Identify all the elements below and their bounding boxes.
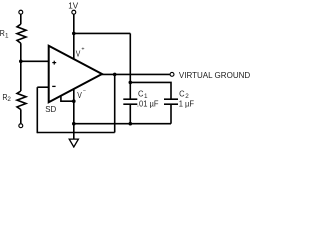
svg-text:V: V bbox=[77, 90, 82, 100]
op-amp minus input marking bbox=[52, 85, 55, 87]
wire R1 to R2 through node bbox=[20, 43, 22, 91]
wire 1V rail down right column bbox=[129, 33, 131, 98]
wire feedback bottom bbox=[37, 132, 114, 134]
svg-text:2: 2 bbox=[7, 96, 11, 103]
wire R1 terminal stem bbox=[20, 14, 22, 24]
svg-text:+: + bbox=[81, 46, 84, 52]
terminal R2 bottom bbox=[19, 124, 23, 128]
svg-text:−: − bbox=[83, 88, 86, 94]
node junction output feedback bbox=[113, 73, 117, 77]
node junction V- SD bbox=[72, 99, 76, 103]
capacitor C1 bbox=[123, 99, 137, 104]
wire V- to ground bbox=[73, 101, 75, 139]
svg-text:1V: 1V bbox=[68, 1, 78, 11]
capacitor C2 bbox=[164, 99, 178, 104]
wire inverting input bbox=[37, 86, 48, 88]
svg-text:1 µF: 1 µF bbox=[179, 98, 194, 108]
svg-text:SD: SD bbox=[45, 104, 56, 114]
wire feedback riser left bbox=[36, 87, 38, 133]
wire C2 bottom stem bbox=[170, 104, 172, 123]
svg-text:VIRTUAL GROUND: VIRTUAL GROUND bbox=[179, 70, 250, 80]
wire R2 bottom stem bbox=[20, 109, 22, 123]
node junction C2 branch bbox=[129, 81, 133, 85]
node junction 1V rail bbox=[72, 32, 76, 36]
terminal virtual ground output bbox=[170, 72, 174, 76]
wire noninverting input bbox=[21, 60, 49, 62]
svg-text:C: C bbox=[179, 89, 185, 99]
svg-text:1: 1 bbox=[5, 32, 9, 39]
wire V- pin bbox=[73, 89, 75, 101]
wire SD pin bbox=[61, 96, 74, 102]
wire C1 bottom stem bbox=[129, 104, 131, 123]
node junction divider to +input bbox=[19, 60, 23, 64]
op-amp plus input marking bbox=[52, 61, 56, 65]
wire 1V terminal to V+ pin bbox=[73, 14, 75, 59]
wire ground rail bbox=[74, 123, 171, 125]
op-amp U1 bbox=[49, 46, 102, 102]
wire op-amp output bbox=[102, 73, 170, 75]
svg-text:V: V bbox=[76, 49, 81, 59]
resistor R2 bbox=[17, 91, 26, 110]
ground bbox=[69, 139, 78, 147]
terminal 1V bbox=[72, 10, 76, 14]
wire 1V rail horizontal bbox=[74, 32, 131, 34]
node junction C1 bottom bbox=[129, 122, 133, 126]
svg-text:.01 µF: .01 µF bbox=[137, 98, 159, 108]
node junction ground rail bbox=[72, 122, 76, 126]
resistor R1 bbox=[17, 24, 26, 43]
wire feedback riser right bbox=[114, 74, 116, 132]
wire branch to C2 top bbox=[130, 82, 171, 98]
terminal R1 top bbox=[19, 10, 23, 14]
svg-text:C: C bbox=[138, 89, 144, 99]
